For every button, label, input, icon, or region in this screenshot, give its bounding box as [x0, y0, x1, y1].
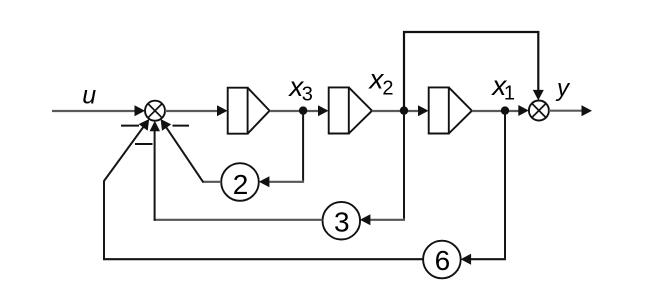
minus sign left of S1: [121, 125, 139, 127]
summing junction S1: [145, 101, 165, 121]
wire output y: [549, 110, 583, 112]
integrator I3: [429, 87, 472, 133]
wire S1 to integrator I1: [165, 110, 219, 112]
arrow into S1 from G3: [150, 121, 160, 132]
gain circle G6: [423, 241, 461, 279]
svg-text:2: 2: [382, 77, 393, 99]
wire x2 down to gain G3: horizontal: [367, 219, 405, 221]
node x1: [501, 106, 509, 114]
wire G6 to S1: bottom horizontal: [103, 258, 423, 260]
arrow into summing junction S1: [135, 105, 146, 116]
wire I2 to I3: [372, 110, 420, 112]
wire x1 down to gain G6: horizontal: [468, 258, 506, 260]
arrow into I1: [217, 105, 228, 116]
gain circle G2: [221, 163, 259, 201]
arrow into I3: [418, 105, 429, 116]
gain circle G3: [323, 202, 361, 240]
wire G6 to S1: left vertical: [103, 181, 105, 260]
arrow into G6: [461, 254, 472, 265]
svg-text:3: 3: [302, 83, 313, 105]
arrow into S2 top: [533, 90, 544, 101]
arrow output: [582, 105, 593, 116]
arrow into S2: [518, 105, 529, 116]
svg-text:6: 6: [435, 245, 451, 276]
arrow into G2: [259, 176, 270, 187]
wire G2 to S1: diagonal: [162, 122, 203, 183]
arrow into S1 from G2: [161, 119, 172, 131]
summing junction S2: [529, 101, 549, 121]
svg-text:u: u: [82, 82, 96, 110]
wire G3 to S1: horizontal: [154, 219, 323, 221]
wire I1 to I2: [270, 110, 320, 112]
svg-text:3: 3: [334, 207, 350, 238]
wire G6 to S1: diagonal: [104, 121, 148, 181]
integrator I1: [228, 88, 270, 134]
wire feedforward x2 up and over to S2: [404, 32, 538, 111]
svg-text:y: y: [555, 75, 571, 102]
minus sign below S1: [135, 143, 153, 145]
wire x3 down to gain G2: horizontal: [266, 181, 304, 183]
wire: input u line: [52, 110, 136, 112]
wire x3 down to gain G2: vertical: [302, 111, 304, 181]
wire G3 to S1: vertical: [154, 126, 156, 221]
minus sign right of S1: [173, 125, 190, 127]
wire x1 down to gain G6: vertical: [504, 111, 506, 258]
arrow into S1 from G6: [139, 119, 150, 131]
node x2: [400, 106, 408, 114]
svg-text:1: 1: [504, 83, 515, 105]
arrow into I2: [318, 105, 329, 116]
wire x2 down to gain G3: vertical: [403, 111, 405, 219]
wire I3 to S2: [472, 110, 520, 112]
arrow into G3: [360, 214, 371, 225]
integrator I2: [329, 87, 372, 133]
svg-text:2: 2: [233, 169, 249, 200]
node x3: [299, 106, 307, 114]
wire G2 to S1: horizontal: [202, 181, 221, 183]
